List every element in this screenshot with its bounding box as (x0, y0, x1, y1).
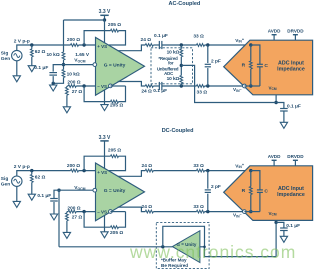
svg-text:Gen: Gen (1, 56, 10, 62)
svg-text:1.65 V: 1.65 V (75, 52, 90, 58)
svg-text:0.1 μF: 0.1 μF (153, 88, 167, 94)
svg-text:Sig: Sig (1, 176, 9, 182)
svg-text:DRVDD: DRVDD (287, 29, 304, 34)
svg-text:3.3 V: 3.3 V (99, 9, 111, 15)
svg-text:2 pF: 2 pF (211, 184, 221, 190)
svg-text:R: R (242, 188, 246, 194)
svg-text:205 Ω: 205 Ω (110, 103, 123, 109)
svg-text:205 Ω: 205 Ω (108, 22, 121, 28)
svg-text:200 Ω: 200 Ω (67, 37, 80, 43)
svg-text:Impedance: Impedance (277, 192, 305, 198)
svg-text:0.1 μF: 0.1 μF (34, 65, 48, 71)
svg-text:3.3 V: 3.3 V (99, 135, 111, 141)
svg-text:2 V p-p: 2 V p-p (14, 38, 30, 44)
svg-text:27 Ω: 27 Ω (72, 215, 83, 221)
svg-text:– VS: – VS (97, 84, 107, 89)
svg-text:27 Ω: 27 Ω (72, 89, 83, 95)
svg-text:200 Ω: 200 Ω (67, 163, 80, 169)
svg-text:33 Ω: 33 Ω (193, 204, 204, 210)
svg-text:10 kΩ: 10 kΩ (167, 76, 180, 82)
svg-text:R: R (242, 62, 246, 68)
svg-text:Impedance: Impedance (277, 66, 305, 72)
svg-text:www.cntronics.com: www.cntronics.com (129, 242, 296, 262)
svg-text:AC-Coupled: AC-Coupled (169, 1, 201, 7)
svg-text:VOCM: VOCM (74, 58, 85, 64)
svg-text:0.1 μF: 0.1 μF (154, 33, 168, 39)
svg-text:AVDD: AVDD (268, 154, 281, 159)
svg-text:62 Ω: 62 Ω (35, 49, 46, 55)
svg-text:0.1 μF: 0.1 μF (37, 193, 51, 199)
svg-text:62 Ω: 62 Ω (35, 174, 46, 180)
svg-text:+ VS: + VS (97, 170, 107, 175)
svg-text:C: C (264, 188, 268, 194)
svg-text:10 kΩ: 10 kΩ (47, 52, 60, 58)
svg-text:– VS: – VS (97, 209, 107, 214)
svg-text:VCM: VCM (269, 85, 277, 91)
svg-text:33 Ω: 33 Ω (193, 33, 204, 39)
svg-text:205 Ω: 205 Ω (108, 147, 121, 153)
svg-text:VOCM: VOCM (74, 185, 85, 191)
svg-text:24 Ω: 24 Ω (142, 163, 153, 169)
svg-text:24 Ω: 24 Ω (141, 89, 152, 95)
svg-text:Gen: Gen (1, 182, 10, 188)
svg-text:0.1 μF: 0.1 μF (287, 104, 301, 110)
svg-text:10 kΩ: 10 kΩ (167, 50, 180, 56)
svg-text:Sig: Sig (1, 50, 9, 56)
svg-text:G = Unity: G = Unity (104, 188, 126, 194)
svg-text:G = Unity: G = Unity (104, 62, 126, 68)
svg-text:205 Ω: 205 Ω (110, 230, 123, 236)
svg-text:DC-Coupled: DC-Coupled (162, 128, 194, 134)
svg-text:33 Ω: 33 Ω (193, 163, 204, 169)
svg-text:for: for (168, 60, 174, 65)
svg-text:200 Ω: 200 Ω (67, 205, 80, 211)
svg-text:2 V p-p: 2 V p-p (14, 164, 30, 170)
svg-text:24 Ω: 24 Ω (142, 204, 153, 210)
svg-text:10 kΩ: 10 kΩ (67, 72, 80, 78)
svg-text:C: C (264, 63, 268, 69)
svg-text:24 Ω: 24 Ω (141, 37, 152, 43)
svg-text:200 Ω: 200 Ω (67, 80, 80, 86)
svg-text:+ VS: + VS (97, 44, 107, 49)
svg-text:AVDD: AVDD (268, 29, 281, 34)
svg-text:2 pF: 2 pF (211, 58, 221, 64)
svg-text:ADC: ADC (164, 71, 173, 76)
svg-text:DRVDD: DRVDD (287, 154, 304, 159)
svg-text:0.1 μF: 0.1 μF (286, 223, 300, 229)
svg-text:VCM: VCM (269, 211, 277, 217)
svg-text:33 Ω: 33 Ω (197, 90, 208, 96)
svg-text:Be Required: Be Required (161, 263, 188, 268)
